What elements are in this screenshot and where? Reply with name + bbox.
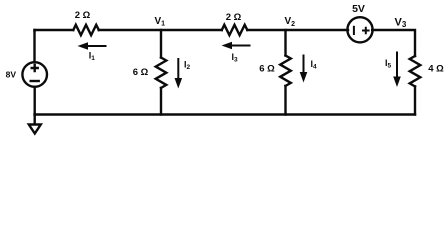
wire 5V to V3 corner [372,30,415,56]
svg-text:V1: V1 [155,16,166,28]
svg-text:V3: V3 [395,16,407,29]
wire V2 to 5V source [247,29,348,31]
wire node V1 branch top [160,30,162,58]
5V minus bar [353,27,355,34]
svg-text:5V: 5V [352,3,365,15]
svg-text:I4: I4 [311,59,318,71]
svg-text:6 Ω: 6 Ω [133,67,149,78]
wire node V1 branch bottom [160,88,162,115]
8V minus bar [31,80,39,82]
scan shadow right wire [417,33,419,115]
resistor R5 4ohm vertical zigzag [410,56,421,86]
current arrow I1 [78,42,107,50]
current arrow I4 [300,55,308,83]
svg-text:6 Ω: 6 Ω [259,64,275,75]
resistor R1 2ohm horizontal zigzag [73,25,98,35]
svg-text:I3: I3 [232,52,239,64]
8V plus sign [32,65,38,71]
svg-text:V2: V2 [285,16,296,28]
wire node V2 branch bottom [284,86,286,115]
wire node V2 branch top [284,30,286,56]
svg-text:4 Ω: 4 Ω [428,64,444,75]
resistor R3 2ohm horizontal zigzag [222,25,248,35]
voltage source V 5V circle [347,17,372,42]
wire V1 top segment [99,29,222,31]
svg-text:I5: I5 [385,58,392,70]
scan shadow under bottom wire [40,116,419,119]
resistor R4 6ohm vertical zigzag [280,56,291,86]
wire top-left segment [35,30,74,31]
ground arrow symbol [29,125,41,134]
wire right bottom segment [414,86,416,114]
current arrow I3 [222,42,251,50]
5V plus sign [363,28,369,34]
current arrow I5 [393,52,401,88]
voltage source 8V circle [22,62,47,87]
svg-text:2 Ω: 2 Ω [75,10,91,21]
wire left vertical bottom to ground [34,87,36,124]
wire bottom [35,113,416,115]
resistor R2 6ohm vertical zigzag [156,58,167,88]
svg-text:2 Ω: 2 Ω [226,12,242,23]
svg-text:8V: 8V [6,69,17,79]
svg-text:I1: I1 [89,50,96,62]
wire left vertical top [33,30,35,62]
current arrow I2 [175,58,183,89]
svg-text:I2: I2 [184,59,191,71]
